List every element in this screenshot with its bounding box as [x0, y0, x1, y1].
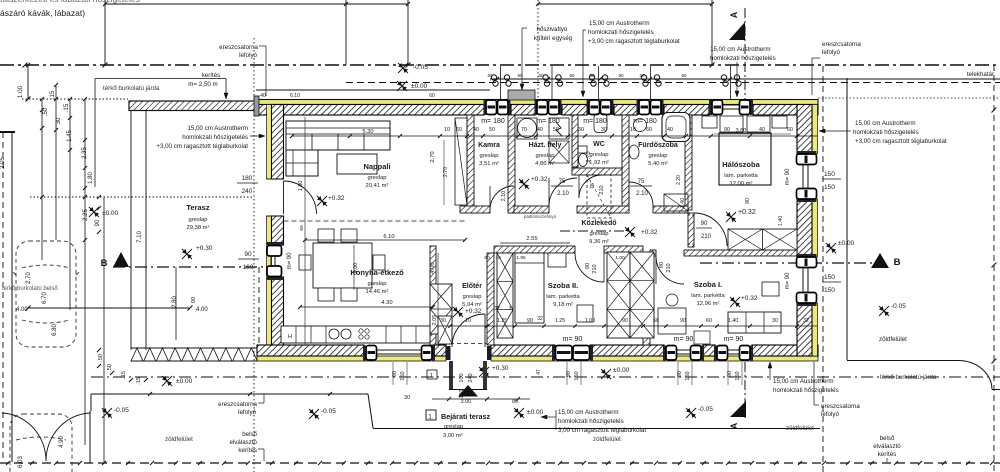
svg-text:2.10: 2.10	[557, 191, 569, 197]
svg-text:m= 90: m= 90	[724, 336, 744, 343]
svg-text:+0.32: +0.32	[738, 209, 756, 216]
svg-text:.15: .15	[121, 371, 127, 379]
svg-text:210: 210	[666, 263, 672, 272]
svg-text:+0.32: +0.32	[641, 229, 658, 236]
svg-text:greslap: greslap	[188, 217, 207, 223]
svg-text:40: 40	[537, 127, 543, 133]
svg-text:.50: .50	[107, 364, 113, 372]
svg-text:homlokzati hőszigetelés: homlokzati hőszigetelés	[773, 387, 839, 394]
svg-text:+3,00 cm ragasztott téglaburko: +3,00 cm ragasztott téglaburkolat	[855, 138, 947, 145]
svg-text:5,40 m²: 5,40 m²	[648, 161, 668, 167]
svg-text:m= 90: m= 90	[563, 336, 583, 343]
svg-text:greslap: greslap	[462, 294, 481, 300]
svg-text:greslap: greslap	[367, 175, 386, 181]
svg-text:greslap: greslap	[589, 152, 608, 158]
svg-text:.15: .15	[136, 377, 142, 385]
svg-text:kerítés: kerítés	[238, 447, 257, 454]
svg-text:m= 180: m= 180	[536, 118, 560, 125]
svg-text:15,00 cm Austrotherm: 15,00 cm Austrotherm	[589, 20, 650, 27]
svg-text:Kamra: Kamra	[478, 142, 500, 149]
svg-text:150: 150	[824, 274, 835, 281]
svg-text:90: 90	[681, 73, 687, 78]
svg-text:lefolyó: lefolyó	[822, 49, 840, 56]
svg-text:zöldfelület: zöldfelület	[879, 336, 907, 343]
svg-text:elválasztó: elválasztó	[873, 443, 901, 450]
svg-text:90: 90	[527, 318, 533, 324]
svg-text:15,00 cm Austrotherm: 15,00 cm Austrotherm	[773, 378, 834, 385]
svg-text:32: 32	[537, 316, 543, 322]
svg-text:Előtér: Előtér	[462, 283, 482, 290]
svg-text:padlóösszefolyó: padlóösszefolyó	[524, 214, 557, 219]
svg-text:.50: .50	[98, 354, 104, 362]
svg-text:m= 90: m= 90	[287, 252, 293, 270]
svg-text:2.20: 2.20	[676, 175, 682, 185]
svg-text:70: 70	[521, 127, 527, 133]
svg-text:1.85: 1.85	[516, 255, 526, 261]
svg-text:15,00 cm Austrotherm: 15,00 cm Austrotherm	[855, 120, 916, 127]
svg-text:30: 30	[440, 318, 446, 324]
svg-text:ereszcsatorna: ereszcsatorna	[219, 44, 258, 51]
svg-text:+3,00 cm ragasztott téglaburko: +3,00 cm ragasztott téglaburkolat	[156, 143, 248, 150]
svg-text:zöldfelület: zöldfelület	[593, 436, 621, 443]
svg-text:10: 10	[444, 127, 450, 133]
svg-text:3.60: 3.60	[736, 128, 747, 134]
svg-text:Házt. hely: Házt. hely	[529, 142, 562, 149]
svg-text:60: 60	[484, 255, 490, 261]
svg-text:kerítés: kerítés	[202, 72, 221, 79]
svg-text:falszerkezeti és lábazati hősz: falszerkezeti és lábazati hőszigetelés	[0, 0, 140, 4]
svg-text:.50: .50	[43, 107, 49, 116]
svg-text:14,46 m²: 14,46 m²	[366, 289, 389, 295]
svg-text:90: 90	[244, 251, 252, 258]
svg-text:homlokzati hőszigetelés: homlokzati hőszigetelés	[710, 55, 776, 62]
svg-text:±0.00: ±0.00	[838, 240, 855, 247]
svg-text:160: 160	[243, 264, 254, 271]
svg-text:60: 60	[538, 73, 544, 78]
svg-text:60: 60	[299, 225, 305, 231]
svg-text:4.90: 4.90	[59, 436, 65, 448]
svg-text:4.00: 4.00	[16, 307, 28, 313]
svg-text:ereszcsatorna: ereszcsatorna	[821, 403, 860, 410]
svg-text:elválasztó: elválasztó	[229, 439, 257, 446]
svg-text:60: 60	[589, 73, 595, 78]
svg-text:150: 150	[735, 371, 741, 380]
svg-text:lam. parketta: lam. parketta	[546, 294, 580, 300]
svg-text:30: 30	[601, 127, 607, 133]
svg-text:-0.05: -0.05	[413, 64, 428, 71]
svg-text:240: 240	[468, 373, 474, 382]
svg-text:100: 100	[459, 373, 465, 382]
svg-text:75: 75	[559, 179, 566, 185]
svg-text:10: 10	[495, 255, 501, 261]
svg-text:Szoba I.: Szoba I.	[694, 280, 722, 289]
svg-text:1.80: 1.80	[88, 172, 94, 184]
svg-text:32: 32	[494, 306, 500, 312]
svg-text:m= 180: m= 180	[481, 118, 505, 125]
svg-text:1.40: 1.40	[728, 318, 738, 324]
svg-text:60: 60	[787, 127, 793, 133]
svg-text:1.40: 1.40	[778, 216, 784, 226]
svg-text:15,00 cm Austrotherm: 15,00 cm Austrotherm	[558, 409, 619, 416]
svg-text:6.10: 6.10	[383, 234, 394, 240]
svg-text:B: B	[101, 258, 108, 269]
svg-text:9,18 m²: 9,18 m²	[553, 302, 573, 308]
svg-text:Közlekedő: Közlekedő	[581, 220, 616, 227]
svg-text:50: 50	[553, 127, 559, 133]
svg-text:15,00 cm Austrotherm: 15,00 cm Austrotherm	[187, 125, 248, 132]
svg-text:1.25: 1.25	[497, 318, 507, 324]
svg-text:1,92 m²: 1,92 m²	[589, 160, 609, 166]
svg-text:60: 60	[429, 93, 435, 99]
svg-text:+0.32: +0.32	[531, 176, 548, 183]
svg-text:2.70: 2.70	[443, 167, 449, 177]
svg-text:1.25: 1.25	[555, 318, 565, 324]
svg-text:A: A	[729, 11, 739, 18]
svg-text:2.70: 2.70	[26, 272, 32, 284]
svg-text:50: 50	[489, 127, 495, 133]
svg-text:homlokzati hőszigetelés: homlokzati hőszigetelés	[853, 129, 919, 136]
svg-text:±0.00: ±0.00	[527, 409, 544, 416]
svg-text:40: 40	[759, 127, 765, 133]
svg-text:belső: belső	[242, 431, 257, 438]
svg-text:60: 60	[653, 318, 659, 324]
svg-text:12,96 m²: 12,96 m²	[697, 301, 720, 307]
svg-text:2.05: 2.05	[432, 315, 438, 326]
svg-text:150: 150	[574, 371, 580, 380]
svg-text:hőszivattyú: hőszivattyú	[537, 26, 569, 33]
svg-text:4,86 m²: 4,86 m²	[535, 161, 555, 167]
svg-text:Hálószoba: Hálószoba	[722, 160, 760, 169]
svg-text:lefolyó: lefolyó	[821, 411, 839, 418]
svg-text:lam. parketta: lam. parketta	[724, 173, 758, 179]
svg-text:greslap: greslap	[535, 153, 554, 159]
svg-text:30: 30	[404, 395, 410, 401]
svg-text:ereszcsatorna: ereszcsatorna	[218, 401, 257, 408]
svg-text:150: 150	[824, 184, 835, 191]
svg-text:1.40: 1.40	[680, 198, 686, 208]
svg-text:10: 10	[465, 318, 471, 324]
svg-text:2.10: 2.10	[636, 191, 648, 197]
svg-text:90: 90	[622, 318, 628, 324]
svg-text:+0.30: +0.30	[492, 365, 509, 372]
svg-text:60: 60	[646, 127, 652, 133]
svg-text:±0.00: ±0.00	[613, 367, 630, 374]
svg-text:210: 210	[599, 185, 605, 194]
svg-text:m= 90: m= 90	[785, 168, 791, 186]
svg-text:3.00: 3.00	[461, 399, 472, 405]
svg-text:29,38 m²: 29,38 m²	[187, 225, 210, 231]
svg-text:-0.05: -0.05	[114, 407, 129, 414]
svg-text:15,00 cm Austrotherm: 15,00 cm Austrotherm	[710, 46, 771, 53]
svg-text:A: A	[729, 422, 739, 429]
svg-text:90: 90	[191, 297, 197, 303]
svg-text:Terasz: Terasz	[186, 203, 209, 212]
svg-text:1.80: 1.80	[298, 181, 304, 192]
svg-text:greslap: greslap	[444, 424, 463, 430]
svg-text:+0.32: +0.32	[741, 295, 758, 302]
svg-text:60: 60	[706, 318, 712, 324]
svg-text:3,00 m²: 3,00 m²	[443, 433, 463, 439]
svg-text:90: 90	[618, 73, 624, 78]
svg-text:belső: belső	[880, 435, 895, 442]
svg-text:1.00: 1.00	[585, 318, 595, 324]
svg-text:zöldfelület: zöldfelület	[165, 436, 193, 443]
svg-text:40: 40	[667, 127, 673, 133]
svg-text:greslap: greslap	[589, 231, 608, 237]
svg-text:homlokzati hőszigetelés: homlokzati hőszigetelés	[558, 418, 624, 425]
svg-text:40: 40	[260, 93, 266, 99]
svg-text:60: 60	[639, 73, 645, 78]
svg-text:homlokzati hőszigetelés: homlokzati hőszigetelés	[182, 134, 248, 141]
svg-text:H: H	[288, 334, 292, 340]
svg-text:2.35: 2.35	[82, 147, 88, 159]
svg-text:B: B	[894, 257, 901, 268]
svg-text:Bejárati terasz: Bejárati terasz	[441, 412, 491, 421]
svg-text:150: 150	[400, 371, 406, 380]
svg-text:47: 47	[536, 369, 542, 375]
svg-text:-0.05: -0.05	[698, 406, 713, 413]
svg-text:90: 90	[569, 73, 575, 78]
svg-text:210: 210	[701, 234, 712, 240]
svg-text:lefolyó: lefolyó	[239, 52, 257, 59]
svg-text:lefolyó: lefolyó	[238, 409, 256, 416]
svg-text:1.: 1.	[428, 414, 434, 421]
svg-text:+0.30: +0.30	[196, 245, 213, 252]
svg-text:ereszcsatorna: ereszcsatorna	[822, 41, 861, 48]
svg-text:12,00 m²: 12,00 m²	[730, 181, 753, 187]
svg-text:+3,00 cm ragasztott téglaburko: +3,00 cm ragasztott téglaburkolat	[588, 38, 680, 45]
svg-text:±0.00: ±0.00	[176, 378, 193, 385]
svg-text:1.00: 1.00	[615, 255, 625, 261]
svg-text:6.03: 6.03	[18, 456, 24, 468]
svg-text:180: 180	[242, 175, 253, 182]
svg-text:32: 32	[803, 318, 809, 324]
svg-text:240: 240	[242, 188, 253, 195]
svg-text:75: 75	[638, 179, 645, 185]
svg-text:m= 2,50 m: m= 2,50 m	[188, 81, 217, 88]
svg-text:±0.00: ±0.00	[102, 210, 119, 217]
svg-text:kerítés: kerítés	[878, 451, 897, 458]
svg-text:6.70: 6.70	[42, 292, 48, 304]
svg-text:100: 100	[459, 390, 465, 399]
svg-text:térkő burkolatú belső: térkő burkolatú belső	[2, 286, 58, 292]
svg-text:homlokzati hőszigetelés: homlokzati hőszigetelés	[588, 29, 654, 36]
svg-text:WC: WC	[593, 141, 605, 148]
svg-text:4.00: 4.00	[196, 307, 208, 313]
svg-text:greslap: greslap	[367, 281, 386, 287]
svg-text:1.45: 1.45	[67, 130, 73, 142]
svg-text:2.05: 2.05	[0, 157, 6, 169]
svg-text:90: 90	[745, 198, 751, 204]
svg-text:60: 60	[456, 127, 462, 133]
svg-text:m= 90: m= 90	[674, 336, 694, 343]
svg-text:greslap: greslap	[479, 153, 498, 159]
svg-text:60: 60	[487, 73, 493, 78]
svg-text:-0.05: -0.05	[891, 303, 906, 310]
svg-text:90: 90	[659, 262, 665, 268]
svg-text:1.00: 1.00	[17, 85, 24, 98]
svg-text:kültéri egység: kültéri egység	[534, 35, 573, 42]
svg-text:10: 10	[630, 127, 636, 133]
svg-text:3: 3	[509, 306, 512, 312]
svg-text:30: 30	[772, 318, 778, 324]
svg-text:75: 75	[590, 183, 596, 189]
svg-text:6.10: 6.10	[290, 93, 300, 99]
svg-text:.15: .15	[64, 103, 70, 112]
svg-text:90: 90	[95, 219, 101, 226]
svg-text:+0.32: +0.32	[328, 195, 345, 202]
svg-text:telekhatár: telekhatár	[967, 71, 994, 78]
svg-text:térkő burkolatú járda: térkő burkolatú járda	[103, 85, 160, 92]
svg-text:30: 30	[56, 117, 62, 124]
svg-text:90: 90	[680, 318, 686, 324]
svg-text:ászáró kávák, lábazat): ászáró kávák, lábazat)	[0, 8, 85, 18]
svg-text:m= 180: m= 180	[583, 118, 607, 125]
svg-text:30: 30	[578, 127, 584, 133]
svg-text:2.70: 2.70	[586, 151, 592, 162]
svg-text:4.30: 4.30	[381, 300, 392, 306]
svg-text:9,36 m²: 9,36 m²	[589, 239, 609, 245]
svg-text:6.80: 6.80	[52, 324, 58, 336]
svg-text:2.25: 2.25	[83, 209, 89, 221]
svg-text:20,41 m²: 20,41 m²	[366, 183, 389, 189]
svg-text:4.00: 4.00	[353, 263, 359, 274]
svg-text:40: 40	[473, 127, 479, 133]
svg-text:4.00: 4.00	[430, 262, 436, 273]
svg-text:90: 90	[724, 127, 730, 133]
svg-text:2.55: 2.55	[526, 236, 537, 242]
svg-text:80: 80	[512, 399, 518, 405]
svg-text:3,51 m²: 3,51 m²	[479, 161, 499, 167]
svg-text:2.10: 2.10	[501, 191, 507, 202]
svg-text:Fürdőszoba: Fürdőszoba	[638, 142, 678, 149]
svg-text:Szoba II.: Szoba II.	[548, 281, 578, 290]
svg-text:7.10: 7.10	[137, 231, 143, 243]
svg-text:90: 90	[701, 221, 708, 227]
svg-text:greslap: greslap	[648, 153, 667, 159]
svg-text:90: 90	[585, 263, 591, 269]
svg-text:±0.00: ±0.00	[411, 83, 428, 90]
svg-text:150: 150	[685, 371, 691, 380]
svg-text:.15: .15	[50, 90, 56, 99]
svg-text:Nappali: Nappali	[363, 162, 390, 171]
svg-text:m= 90: m= 90	[785, 272, 791, 290]
svg-text:150: 150	[824, 171, 835, 178]
svg-text:210: 210	[592, 264, 598, 273]
svg-text:lam. parketta: lam. parketta	[691, 293, 725, 299]
svg-text:2.80: 2.80	[172, 296, 178, 308]
svg-text:5.30: 5.30	[362, 129, 373, 135]
svg-text:+0.32: +0.32	[465, 308, 482, 315]
svg-text:-0.05: -0.05	[321, 408, 336, 415]
svg-text:150: 150	[824, 287, 835, 294]
svg-text:2.70: 2.70	[430, 151, 436, 162]
